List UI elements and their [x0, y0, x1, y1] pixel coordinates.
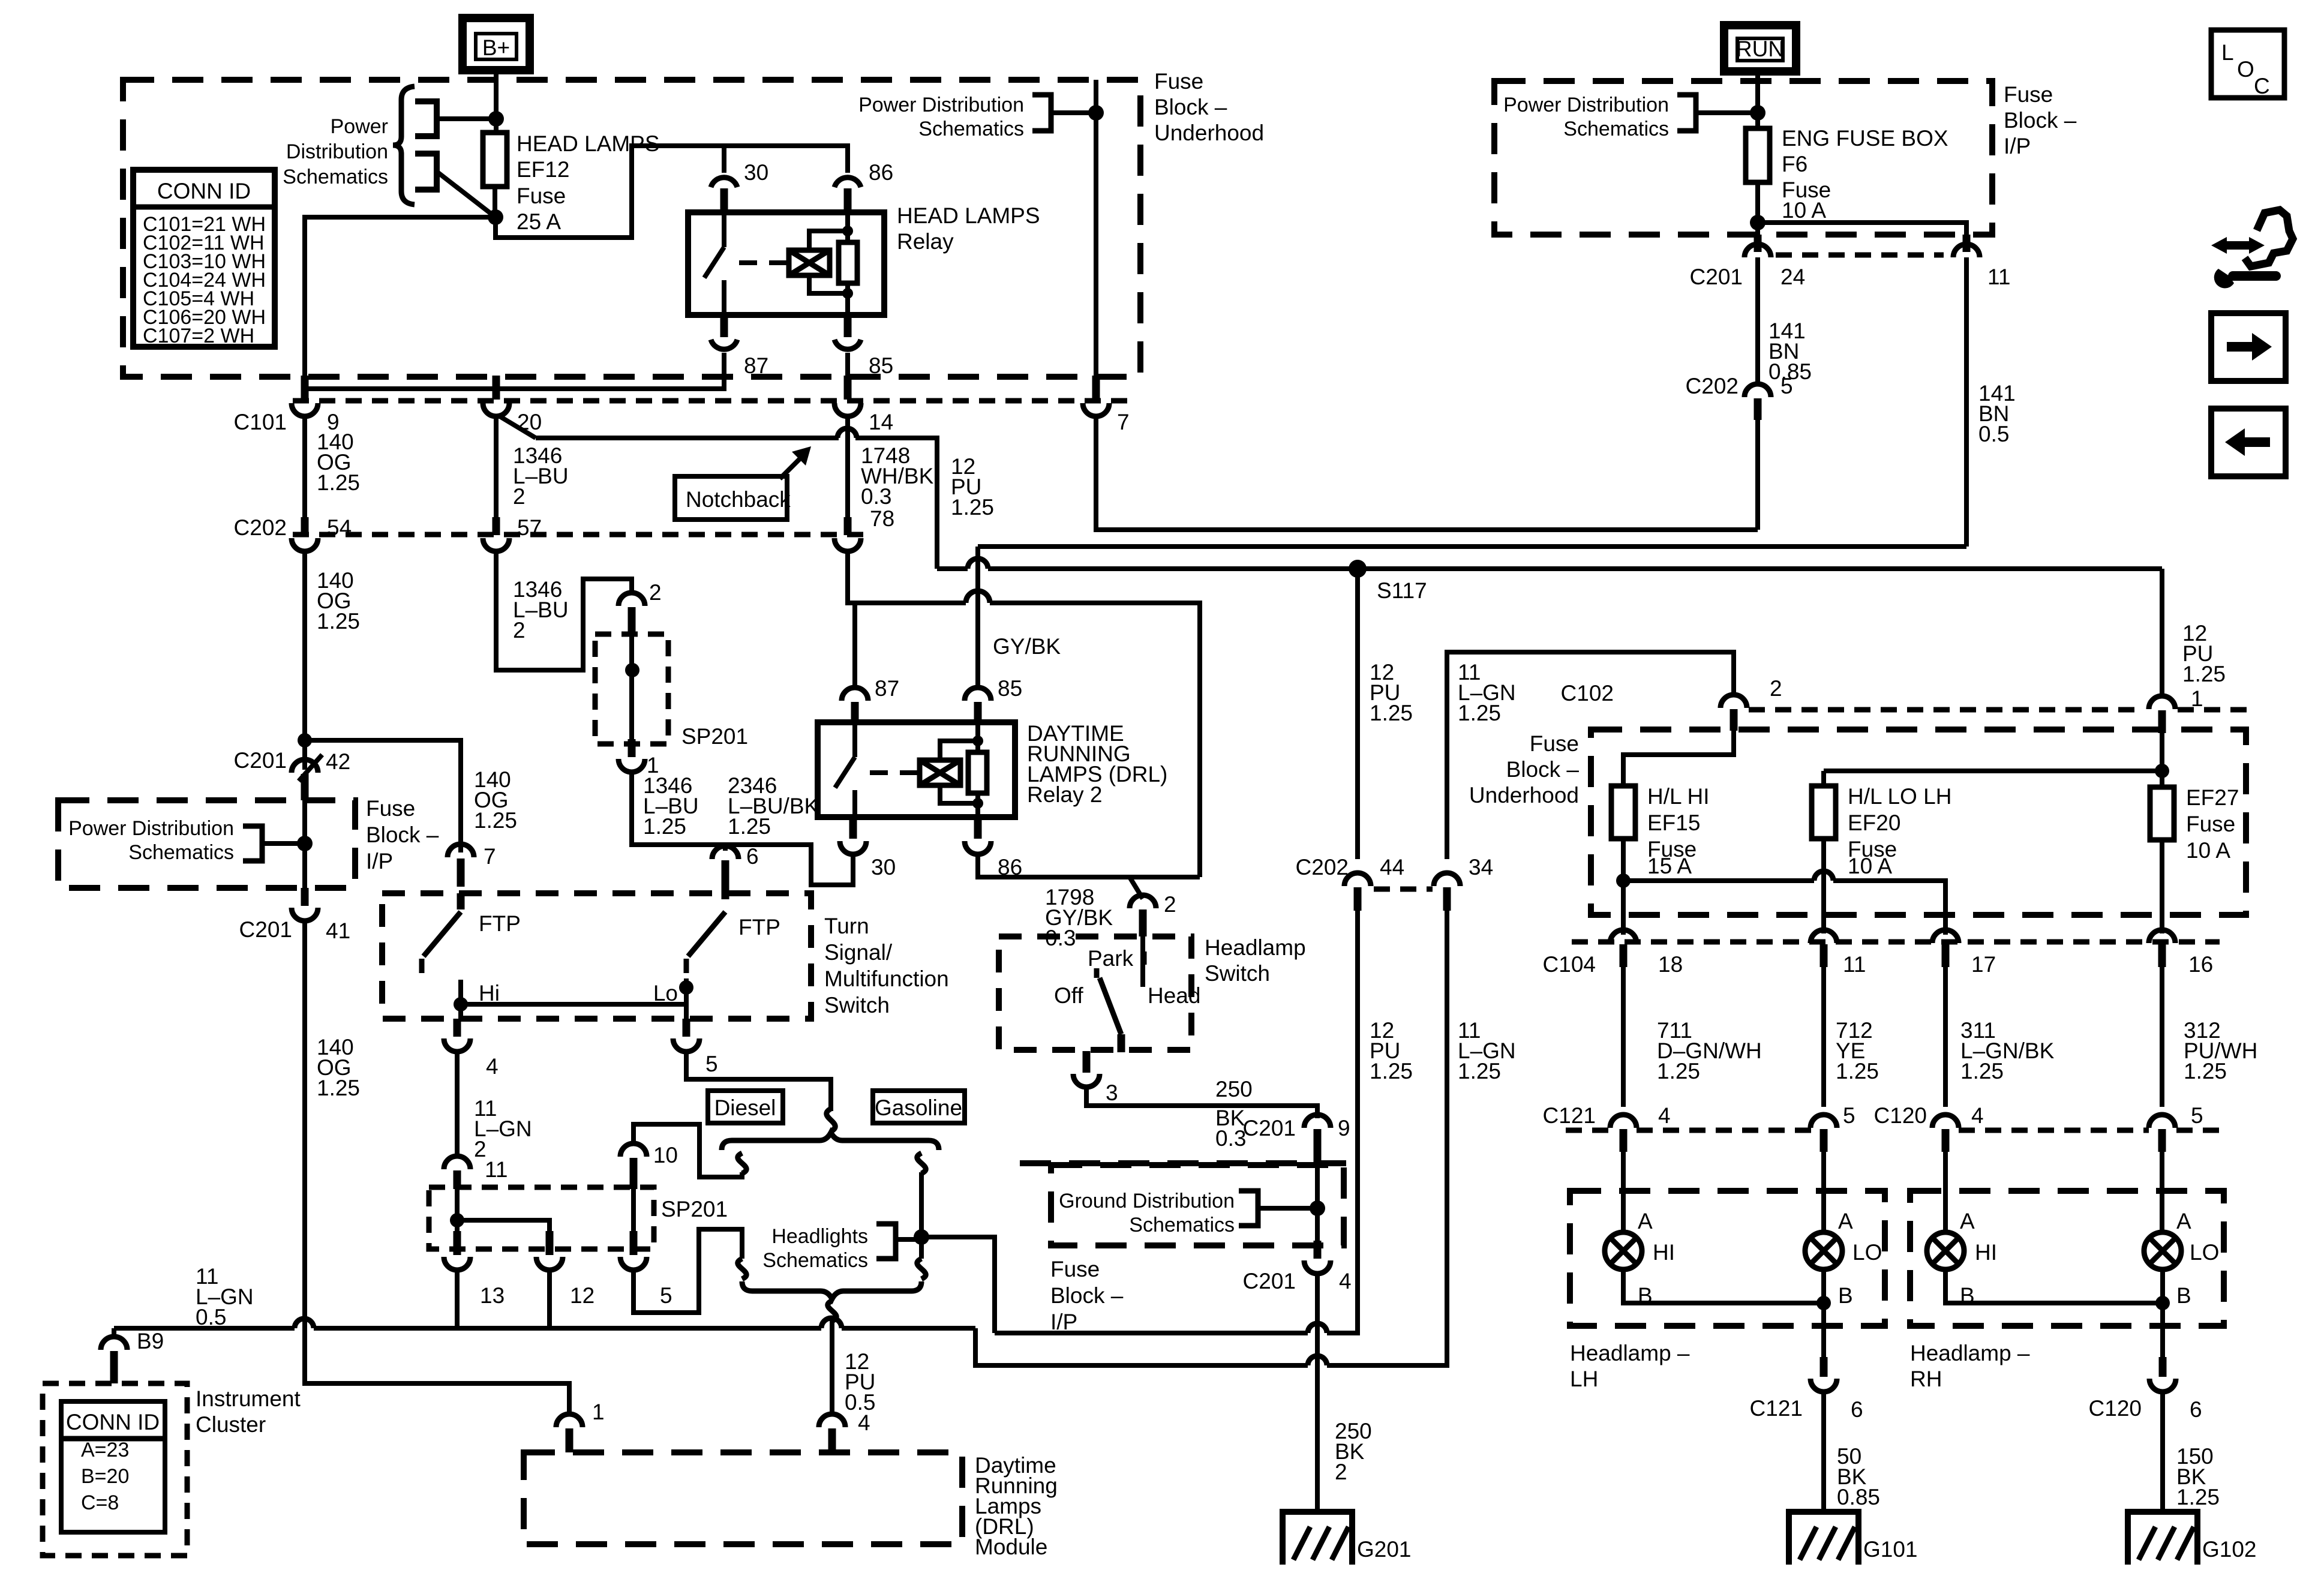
svg-text:Relay 2: Relay 2	[1027, 782, 1102, 807]
connector module-4	[819, 1414, 845, 1452]
svg-text:Block –: Block –	[2004, 108, 2077, 133]
relay U1 switch contact	[704, 215, 724, 313]
svg-text:4: 4	[486, 1054, 499, 1079]
hop C201-4 over 11LGN line	[1308, 1356, 1327, 1365]
node dot below F6	[1750, 215, 1765, 230]
connector C104-18	[1543, 930, 1683, 977]
relay K2 actuator dashes	[870, 770, 918, 775]
arrow left legend box	[2211, 409, 2286, 476]
wire bracket to bus	[1051, 110, 1096, 115]
label Turn Signal Multifunction Switch	[824, 914, 949, 1017]
hop over pin14 wire	[837, 428, 857, 438]
pin 87 connector	[711, 315, 768, 378]
fuse EF12	[483, 133, 507, 187]
svg-text:C104: C104	[1543, 952, 1596, 977]
svg-text:Switch: Switch	[1205, 961, 1270, 986]
svg-text:Power: Power	[331, 115, 388, 138]
svg-text:11: 11	[1843, 952, 1866, 977]
wire pin4 to SP201-11	[455, 1052, 460, 1158]
service icon wrench	[2214, 269, 2281, 288]
svg-text:C120: C120	[2089, 1396, 2142, 1421]
connector row C104 dashes	[1572, 939, 2220, 945]
CONN ID table 2	[61, 1401, 165, 1532]
fuse block underhood 2 dashed box	[1591, 730, 2246, 915]
label 140 OG 1.25 ftp	[474, 767, 517, 833]
connector C202-78	[834, 517, 861, 551]
label 1798 GY/BK 0.3	[1045, 885, 1113, 950]
svg-text:EF20: EF20	[1848, 810, 1900, 835]
wire pin5 to gasoline brace	[686, 1052, 831, 1111]
connector underhood-1	[2149, 696, 2175, 733]
svg-text:CONN ID: CONN ID	[66, 1410, 160, 1434]
svg-text:4: 4	[858, 1410, 870, 1435]
relay U1 resistor	[839, 242, 857, 283]
label Power Distribution Schematics run	[1503, 94, 1669, 140]
label C102 2	[1561, 676, 1782, 706]
svg-text:1.25: 1.25	[1370, 701, 1413, 725]
svg-text:5: 5	[705, 1052, 718, 1076]
svg-text:C201: C201	[239, 917, 292, 942]
node splice dot	[625, 663, 639, 677]
svg-text:1.25: 1.25	[951, 495, 994, 520]
wire diesel branch to SP201-10	[633, 1124, 742, 1177]
label 11 L-GN 1.25 upper	[1458, 660, 1516, 725]
svg-text:Module: Module	[975, 1535, 1047, 1559]
pin 85 connector	[834, 315, 893, 378]
connector C104-16	[2149, 930, 2213, 977]
svg-text:1.25: 1.25	[728, 814, 771, 839]
wire C201-24 to C202-5	[1755, 257, 1760, 384]
label 12 PU 1.25 column	[1370, 660, 1413, 725]
svg-text:Schematics: Schematics	[762, 1249, 868, 1272]
wire RUN to fuse F6	[1755, 71, 1760, 128]
Notchback arrow	[780, 446, 811, 479]
label 141 BN 0.85	[1768, 319, 1812, 384]
node dot headlights schematics	[914, 1229, 929, 1245]
connector SP201-5	[620, 1231, 672, 1308]
svg-text:A: A	[2176, 1209, 2191, 1233]
svg-text:30: 30	[871, 855, 896, 879]
label Headlamp Switch	[1205, 935, 1306, 986]
relay U1 coil leads	[809, 231, 848, 293]
svg-text:86: 86	[869, 160, 893, 185]
DRL module dashed box	[524, 1452, 962, 1544]
connector SP201-13	[444, 1231, 505, 1308]
service icon double arrow	[2211, 237, 2265, 254]
label 312 PU/WH 1.25	[2184, 1018, 2257, 1083]
label Instrument Cluster	[196, 1386, 301, 1437]
svg-text:C201: C201	[1243, 1269, 1296, 1293]
wire F6 to C201-24	[1755, 182, 1760, 235]
wire C104-11 down	[1821, 967, 1826, 1107]
wire hi-lo link	[461, 1002, 686, 1007]
wire C101-20 to C202-57	[494, 416, 499, 518]
wire link pin7 to C202-5	[1096, 416, 1758, 530]
svg-text:C202: C202	[1686, 374, 1739, 398]
svg-text:C120: C120	[1874, 1103, 1927, 1128]
bulb LO LH	[1805, 1232, 1842, 1269]
svg-text:Headlamp: Headlamp	[1205, 935, 1306, 960]
svg-text:Fuse: Fuse	[2186, 812, 2235, 836]
svg-text:1.25: 1.25	[1960, 1059, 2004, 1083]
svg-text:C: C	[2254, 74, 2270, 98]
svg-text:A=23: A=23	[81, 1439, 129, 1461]
wire bracket headlights stem	[896, 1237, 921, 1242]
svg-text:A: A	[1960, 1209, 1975, 1233]
svg-text:Fuse: Fuse	[1154, 69, 1203, 94]
relay K2 DRL box	[818, 722, 1015, 817]
connector SP201-11	[444, 1156, 508, 1189]
wire EF15 down	[1621, 839, 1626, 935]
svg-text:1.25: 1.25	[1458, 1059, 1501, 1083]
label Fuse Block Underhood 2	[1469, 731, 1580, 807]
wire conn11 down 141 BN	[1964, 257, 1969, 547]
wire B+ to fuse EF12	[494, 70, 499, 133]
label 140 OG 1.25	[317, 430, 360, 495]
svg-text:FTP: FTP	[738, 915, 780, 939]
lower alternative brace	[742, 1281, 921, 1299]
svg-text:Block –: Block –	[1154, 95, 1227, 119]
label 50 BK 0.85	[1837, 1444, 1880, 1509]
svg-text:O: O	[2237, 57, 2254, 82]
wire vertical bus to pin7	[1094, 80, 1098, 378]
headlamp switch dashed box	[999, 936, 1191, 1050]
label 11 L-GN 2	[474, 1096, 532, 1161]
label 250 BK 0.3	[1215, 1077, 1253, 1151]
CONN ID table	[133, 170, 275, 347]
svg-text:Turn: Turn	[824, 914, 869, 938]
svg-text:C107=2 WH: C107=2 WH	[143, 325, 254, 347]
power distribution brace	[393, 86, 415, 205]
svg-text:17: 17	[1971, 952, 1996, 977]
bulb HI LH	[1605, 1232, 1642, 1269]
label 311 L-GN/BK 1.25	[1960, 1018, 2055, 1083]
svg-text:87: 87	[875, 676, 899, 701]
wire bracket to run bus	[1696, 110, 1758, 115]
svg-text:1.25: 1.25	[1458, 701, 1501, 725]
svg-text:54: 54	[327, 515, 352, 540]
bus hook upper	[415, 101, 437, 136]
label Daytime Running Lamps DRL Module	[975, 1453, 1058, 1559]
svg-text:RH: RH	[1910, 1367, 1942, 1391]
wire 11 LGN main line with hops	[114, 1318, 975, 1328]
wire C102-2 to EF15	[1623, 731, 1734, 786]
svg-text:14: 14	[869, 410, 893, 434]
pin 30 DRL connector	[840, 817, 896, 879]
svg-text:42: 42	[326, 749, 350, 774]
wire 140OG T to FTP feed	[305, 740, 461, 852]
svg-text:4: 4	[1971, 1103, 1984, 1128]
connector C102-2	[1721, 695, 1747, 731]
contact hi	[458, 980, 463, 1019]
wire through IP box	[302, 800, 307, 888]
bracket ip	[243, 826, 262, 861]
label 12 PU 1.25 1 right	[2182, 621, 2226, 711]
svg-text:10 A: 10 A	[2186, 838, 2230, 863]
connector C201-4b	[1243, 1241, 1352, 1293]
wire splice link to 12-branch	[457, 1220, 550, 1231]
svg-text:S117: S117	[1377, 578, 1427, 603]
svg-text:GY/BK: GY/BK	[993, 634, 1061, 659]
svg-text:C121: C121	[1750, 1396, 1803, 1421]
svg-text:C201: C201	[234, 748, 287, 773]
Notchback callout box	[675, 476, 791, 520]
pin 85 DRL connector	[965, 676, 1022, 722]
wire splice 10-branch through	[631, 1189, 636, 1231]
wire conn12 to lgn jog	[547, 1270, 552, 1328]
svg-text:4: 4	[1339, 1269, 1352, 1293]
label Fuse Block IP mid	[366, 796, 439, 873]
connector switch pin6	[712, 844, 759, 899]
label DAYTIME RUNNING LAMPS DRL Relay 2	[1027, 721, 1167, 807]
label Fuse Block IP right	[2004, 82, 2077, 158]
svg-text:Multifunction: Multifunction	[824, 966, 949, 991]
connector C201-9b	[1243, 1115, 1350, 1163]
wire LH ground lead	[1821, 1269, 1826, 1361]
svg-text:15 A: 15 A	[1647, 854, 1692, 878]
connector row C102 dashes	[1749, 707, 2247, 713]
connector switch pin4	[444, 1019, 499, 1079]
wire C201-9 through IP to C201-4	[1315, 1163, 1320, 1242]
fuse EF15	[1611, 786, 1635, 839]
svg-text:Relay: Relay	[897, 229, 954, 254]
svg-text:2: 2	[1770, 676, 1782, 701]
svg-text:5: 5	[1843, 1103, 1855, 1128]
svg-text:Gasoline: Gasoline	[875, 1095, 962, 1120]
label 12 PU 0.5 4	[845, 1349, 875, 1435]
svg-text:0.3: 0.3	[861, 484, 891, 509]
svg-text:RUN: RUN	[1736, 37, 1784, 61]
node dot lh B	[1816, 1296, 1831, 1310]
wire pin3 to C201-9	[1086, 1087, 1317, 1118]
svg-text:Fuse: Fuse	[366, 796, 415, 821]
relay U1 right branch wire	[842, 215, 853, 313]
wire branch to DRL pin 87	[852, 603, 857, 686]
connector SP201-10	[620, 1143, 678, 1189]
connector row C121 dashes	[1566, 1128, 2220, 1133]
svg-text:I/P: I/P	[1050, 1310, 1077, 1334]
svg-text:Cluster: Cluster	[196, 1412, 266, 1437]
svg-text:C=8: C=8	[81, 1491, 119, 1514]
multifunction switch dashed box	[382, 893, 811, 1019]
switch blade headswitch	[1100, 978, 1121, 1052]
svg-text:Headlights: Headlights	[771, 1225, 868, 1248]
wire EF27 down	[2160, 840, 2164, 933]
arrow right legend box	[2211, 313, 2286, 381]
label 1346 L-BU 2 second	[513, 577, 569, 643]
wire relay 87 loop	[305, 353, 724, 389]
wire gasoline upper branch	[919, 1172, 924, 1259]
connector C104-11	[1810, 930, 1866, 977]
svg-text:Power Distribution: Power Distribution	[68, 817, 234, 840]
svg-text:C101: C101	[234, 410, 287, 434]
label 11 L-GN 1.25 lower column	[1458, 1018, 1516, 1083]
svg-text:1.25: 1.25	[474, 808, 517, 833]
svg-text:2: 2	[649, 580, 662, 605]
svg-text:Off: Off	[1054, 983, 1083, 1008]
svg-text:C202: C202	[1296, 855, 1349, 879]
svg-text:1.25: 1.25	[643, 814, 686, 839]
svg-text:18: 18	[1658, 952, 1683, 977]
svg-text:EF12: EF12	[517, 157, 569, 182]
bracket mid	[1032, 95, 1051, 131]
connector C202-57	[483, 515, 542, 551]
wire C101-14 to 78	[845, 416, 850, 518]
connector C202-5	[1686, 374, 1793, 420]
svg-text:Fuse: Fuse	[1050, 1257, 1100, 1281]
connector headswitch-3	[1073, 1051, 1118, 1105]
wire C104-17 down	[1943, 967, 1948, 1107]
wire EF20 down	[1821, 839, 1826, 933]
LOC legend box	[2211, 30, 2284, 98]
connector C202-54	[234, 515, 352, 551]
label ENG FUSE BOX F6	[1782, 126, 1948, 223]
svg-text:11: 11	[1987, 265, 2010, 289]
connector C121-6	[1750, 1357, 1863, 1422]
label 11 L-GN 0.5	[196, 1264, 254, 1329]
wire C202-57 to SP201-2 jog	[496, 551, 632, 670]
wire GY/BK upper run	[978, 544, 1966, 549]
wire DRL 86 to headlamp switch 2	[978, 854, 1200, 899]
svg-text:EF15: EF15	[1647, 810, 1700, 835]
headlamp RH dashed box	[1910, 1191, 2224, 1326]
wire S117 down to C202-44	[1355, 569, 1360, 859]
svg-text:Schematics: Schematics	[918, 118, 1024, 140]
svg-text:B=20: B=20	[81, 1465, 129, 1488]
squiggle gasoline lower	[917, 1259, 926, 1279]
svg-text:7: 7	[1117, 410, 1130, 434]
connector row C201-24 dashes	[1776, 253, 1944, 258]
svg-text:B: B	[2176, 1283, 2191, 1308]
squiggle feed upper brace	[827, 1109, 835, 1131]
svg-text:B9: B9	[137, 1329, 164, 1353]
fuse block IP dashed box top	[1494, 81, 1992, 235]
svg-text:0.5: 0.5	[196, 1305, 226, 1329]
fuse EF20	[1812, 786, 1836, 839]
label HEAD LAMPS Relay	[897, 203, 1040, 254]
svg-text:Underhood: Underhood	[1469, 783, 1579, 807]
label 250 BK 2	[1335, 1419, 1372, 1484]
wire C202-5 down to link	[1755, 420, 1760, 530]
pin 87 DRL connector	[842, 676, 899, 722]
label Fuse Block IP lower	[1050, 1257, 1124, 1334]
svg-text:1.25: 1.25	[317, 1076, 360, 1100]
wire conn13 to lgn line	[455, 1270, 460, 1328]
connector C121-4	[1543, 1103, 1671, 1152]
wire branch diagonal from C101-20	[500, 416, 536, 438]
svg-text:Power Distribution: Power Distribution	[858, 94, 1024, 116]
svg-text:C102: C102	[1561, 681, 1614, 706]
svg-text:0.85: 0.85	[1837, 1485, 1880, 1509]
svg-text:1.25: 1.25	[317, 470, 360, 495]
node dot 140OG T	[298, 733, 312, 748]
pin 30 connector	[711, 160, 768, 212]
svg-text:Underhood: Underhood	[1154, 121, 1264, 145]
switch blade hi	[422, 893, 461, 973]
label 2346 L-BU/BK 1.25	[728, 773, 819, 839]
svg-text:Schematics: Schematics	[283, 166, 388, 188]
instrument cluster dashed box	[43, 1383, 187, 1556]
svg-text:30: 30	[744, 160, 768, 185]
wire RH ground lead	[2160, 1269, 2165, 1361]
wire bracket to wire	[1258, 1206, 1317, 1211]
pin 86 DRL connector	[965, 817, 1022, 879]
svg-text:34: 34	[1469, 855, 1493, 879]
wire junction to C101-9	[305, 217, 496, 378]
connector ftp-7	[448, 844, 496, 887]
connector switch pin5	[673, 1019, 718, 1076]
wire hook diagonal to lower junction	[437, 172, 496, 217]
wire C120-4 to HI bulb rh	[1943, 1152, 1948, 1233]
wire C201-41 down long	[305, 921, 569, 1416]
squiggle module feed	[828, 1301, 836, 1321]
fuse block IP lower dashed border	[1020, 1160, 1360, 1166]
switch blade lo	[686, 912, 725, 973]
wire 12PU right leg down	[2160, 569, 2164, 696]
svg-text:EF27: EF27	[2186, 785, 2239, 810]
headlamp LH dashed box	[1570, 1191, 1885, 1326]
svg-text:Fuse: Fuse	[2004, 82, 2053, 107]
node junction dot below fuse	[488, 209, 503, 225]
svg-text:Instrument: Instrument	[196, 1386, 301, 1411]
wire C121-6 to G101	[1821, 1392, 1826, 1512]
relay K2 right branch	[972, 725, 983, 815]
node splice dot lower	[450, 1213, 464, 1227]
wire C104-18 down	[1621, 967, 1626, 1107]
svg-text:7: 7	[484, 844, 496, 869]
connector C101-7	[1083, 376, 1130, 434]
connector row C202-44 dashes	[1374, 887, 1433, 892]
svg-text:25 A: 25 A	[517, 209, 561, 234]
node junction dot top	[488, 111, 504, 127]
svg-text:HI: HI	[1653, 1240, 1675, 1265]
svg-text:87: 87	[744, 353, 768, 378]
squiggle diesel lower	[738, 1259, 746, 1279]
label Headlights Schematics	[762, 1225, 868, 1272]
connector C120-6	[2089, 1357, 2202, 1422]
label 1346 L-BU 2	[513, 443, 569, 509]
label 12 PU 1.25	[951, 454, 994, 520]
svg-text:1.25: 1.25	[2182, 662, 2226, 686]
connector module-1	[556, 1400, 605, 1452]
wire branch to relay pin 30	[722, 146, 726, 173]
wire B9 drop	[112, 1328, 116, 1339]
svg-text:Lo: Lo	[653, 981, 678, 1005]
connector B9	[101, 1329, 164, 1383]
connector C203-11	[1953, 235, 2010, 289]
svg-text:5: 5	[1780, 374, 1793, 398]
connector row C202 dashes	[293, 532, 867, 538]
wire C101-9 to C202-54	[302, 416, 307, 518]
connector C201-42	[234, 748, 351, 800]
connector C121-5	[1810, 1103, 1855, 1152]
wire branch to conn 11	[1758, 223, 1966, 235]
svg-text:0.5: 0.5	[1978, 422, 2009, 446]
connector C101-14	[834, 376, 893, 434]
wire C104-16 down	[2160, 967, 2164, 1107]
svg-text:2: 2	[513, 618, 526, 643]
relay K2 switch contact	[835, 725, 855, 815]
connector SP201-12	[536, 1231, 594, 1308]
svg-text:0.3: 0.3	[1215, 1126, 1246, 1151]
svg-text:C201: C201	[1243, 1116, 1296, 1140]
svg-text:10 A: 10 A	[1848, 854, 1892, 878]
wire EF15 branch right with hop	[1623, 871, 1945, 935]
svg-text:B+: B+	[482, 35, 510, 60]
bulb LO RH	[2144, 1232, 2181, 1269]
label 12 PU 1.25 lower column	[1370, 1018, 1413, 1083]
wire relay 85 to C101-14	[845, 353, 850, 378]
